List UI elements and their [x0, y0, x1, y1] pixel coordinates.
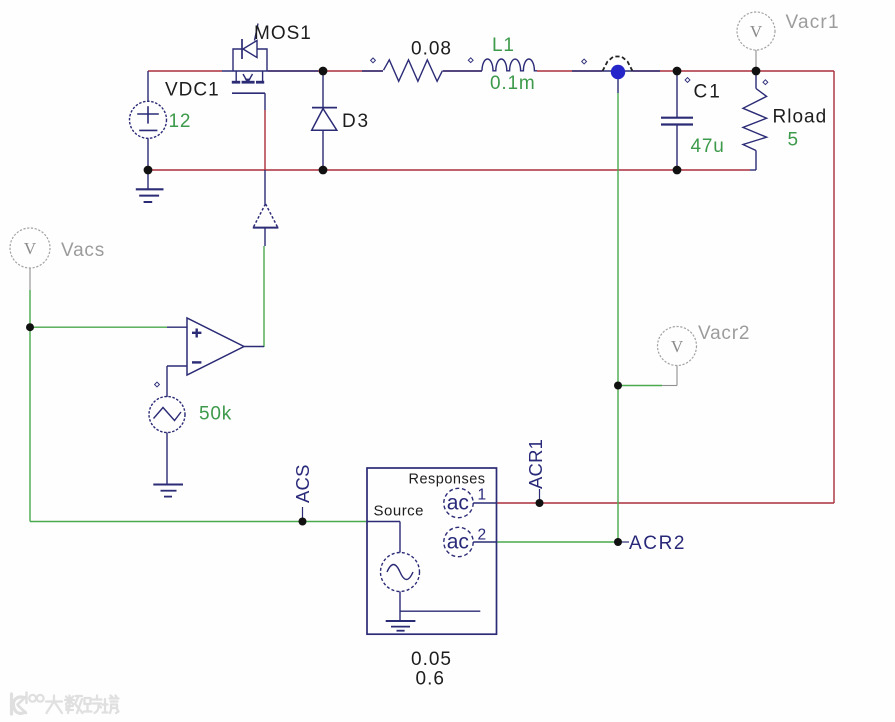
svg-text:50k: 50k	[199, 404, 232, 425]
svg-text:12: 12	[169, 111, 192, 132]
svg-text:1: 1	[478, 487, 487, 504]
svg-text:0.1m: 0.1m	[490, 73, 535, 94]
svg-text:0.08: 0.08	[411, 39, 452, 60]
svg-text:5: 5	[788, 130, 799, 151]
svg-text:C1: C1	[694, 82, 722, 103]
svg-text:VDC1: VDC1	[165, 80, 220, 101]
svg-text:L1: L1	[492, 35, 515, 56]
svg-text:MOS1: MOS1	[254, 23, 312, 44]
svg-text:0.05: 0.05	[411, 649, 452, 670]
svg-text:0.6: 0.6	[416, 669, 445, 690]
svg-text:Vacs: Vacs	[61, 240, 105, 261]
svg-text:Source: Source	[374, 503, 425, 520]
svg-text:V: V	[671, 337, 684, 356]
svg-text:ac: ac	[447, 492, 469, 515]
svg-text:47u: 47u	[691, 136, 725, 157]
svg-text:ac: ac	[447, 531, 469, 554]
svg-text:ACR1: ACR1	[525, 439, 546, 489]
svg-text:Vacr1: Vacr1	[786, 12, 840, 33]
svg-text:Rload: Rload	[773, 107, 828, 128]
svg-text:Vacr2: Vacr2	[698, 323, 750, 344]
svg-text:ACR2: ACR2	[629, 533, 686, 554]
svg-text:Responses: Responses	[409, 472, 486, 488]
svg-text:ACS: ACS	[292, 464, 313, 503]
svg-text:V: V	[750, 22, 763, 41]
svg-text:2: 2	[478, 527, 487, 544]
svg-text:D3: D3	[342, 111, 370, 132]
svg-text:V: V	[24, 239, 37, 258]
